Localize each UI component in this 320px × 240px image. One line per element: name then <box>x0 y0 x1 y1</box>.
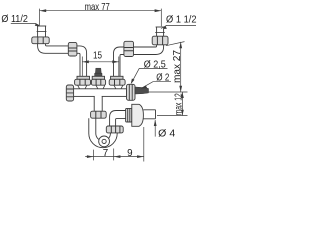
node leader O2 arrow <box>141 86 148 89</box>
wire max27 dimension line <box>180 42 182 92</box>
node right pipe flange <box>155 31 165 33</box>
svg-text:max 27: max 27 <box>172 50 183 83</box>
trap U outer <box>89 118 117 147</box>
cap left end <box>66 85 73 101</box>
pipe left horizontal run <box>69 46 87 77</box>
nut manifold left <box>75 79 91 85</box>
nut right horizontal run <box>124 41 134 56</box>
pipe trap inlet <box>94 96 102 111</box>
nut left inlet vertical <box>32 37 49 44</box>
node bottom arrow right-pointing at 93.6 <box>87 155 94 158</box>
svg-text:Ø 11/2: Ø 11/2 <box>1 14 28 25</box>
wire leader O2.5 underline <box>132 69 168 83</box>
wire 15-dim right extension <box>118 57 120 77</box>
pipe right inlet vertical + elbow left <box>133 27 163 55</box>
node 15 right arrow <box>112 60 119 63</box>
wire bottom dim extension middle <box>113 149 115 161</box>
node body-to-trap opening <box>95 96 102 98</box>
node bottom arrow right-pointing at 143.8 <box>137 155 144 158</box>
wire max77 dimension line <box>40 10 162 12</box>
node leader arrow top-left <box>35 23 41 26</box>
svg-text:Ø 1 1/2: Ø 1 1/2 <box>166 14 197 25</box>
cleanout circle <box>99 136 110 147</box>
wire 15-dim line <box>82 61 119 63</box>
trap U inner <box>96 118 111 141</box>
bell wall fitting <box>132 104 144 126</box>
node max27 bottom arrow <box>179 86 182 92</box>
collar center branch <box>92 76 104 79</box>
node left pipe flange <box>37 31 47 33</box>
pipe outlet <box>143 110 155 119</box>
svg-text:15: 15 <box>93 50 102 61</box>
wire max77 left extension <box>39 9 41 26</box>
node max77 left arrow <box>40 9 47 12</box>
node leader arrow top-right <box>160 26 167 29</box>
node leader O2.5 arrow <box>131 79 135 85</box>
collar right branch <box>111 76 123 79</box>
node max12 top arrow <box>181 92 184 98</box>
svg-text:7: 7 <box>103 148 108 159</box>
wire leader O4 <box>154 120 156 137</box>
nut trap inlet <box>91 111 107 118</box>
pipe left inlet vertical + elbow right <box>38 26 69 53</box>
node bottom arrow left-pointing at 113.7 <box>114 155 121 158</box>
nut left horizontal run <box>68 42 77 56</box>
wire max27 top sloped extension <box>166 42 185 46</box>
wire leader top-right label underline <box>162 25 197 28</box>
svg-text:9: 9 <box>127 148 132 159</box>
nut riser <box>106 126 123 133</box>
wire bottom dim extension right <box>143 127 145 162</box>
barb dark outlet <box>135 87 149 94</box>
cleanout inner circle <box>102 139 106 143</box>
svg-text:Ø 4: Ø 4 <box>158 128 175 139</box>
node max27 top arrow <box>179 42 182 48</box>
nut right inlet vertical <box>152 36 168 45</box>
nut manifold center <box>91 79 105 85</box>
wire bottom dim extension left <box>93 150 95 161</box>
wire 15-dim left extension <box>81 57 83 77</box>
collar left branch <box>77 76 90 79</box>
plug dark center <box>95 68 102 76</box>
node max12 bottom arrow <box>181 110 184 116</box>
nut wall fitting <box>126 108 132 122</box>
node leader O4 arrow <box>154 120 157 126</box>
wire max12 dimension line <box>181 92 183 116</box>
pipe riser elbow to horizontal <box>110 111 126 127</box>
wire leader O2 underline <box>142 82 171 88</box>
svg-text:Ø 2: Ø 2 <box>156 72 169 83</box>
pipe right horizontal run to elbow down <box>114 47 134 76</box>
svg-text:Ø 2,5: Ø 2,5 <box>144 59 166 70</box>
wire shared axis extension from barb <box>149 91 188 93</box>
node max77 right arrow <box>155 9 162 12</box>
wire leader top-left label underline <box>11 23 40 25</box>
node 15 left arrow <box>82 60 89 63</box>
manifold taper outlets <box>78 85 123 89</box>
cap right end <box>127 84 136 100</box>
nut manifold right <box>109 79 125 85</box>
wire max77 right extension <box>160 9 162 27</box>
wire bottom dimension line <box>85 156 144 158</box>
wire max12 bottom extension <box>157 115 188 117</box>
svg-text:max 12: max 12 <box>173 93 184 115</box>
manifold body <box>74 89 127 97</box>
svg-text:max 77: max 77 <box>85 2 110 13</box>
